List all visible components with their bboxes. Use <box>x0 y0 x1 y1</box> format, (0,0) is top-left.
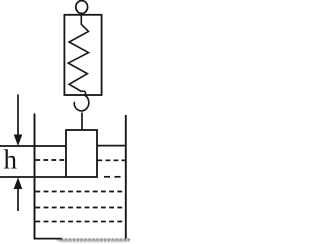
svg-text:h: h <box>4 145 18 175</box>
